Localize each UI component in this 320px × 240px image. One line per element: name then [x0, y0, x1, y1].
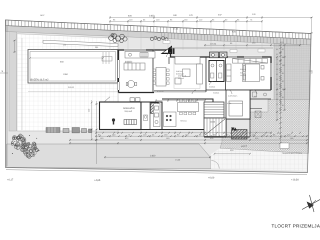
door arcs — [167, 53, 172, 58]
svg-text:(7,48): (7,48) — [175, 158, 181, 161]
svg-text:95: 95 — [282, 56, 284, 59]
svg-text:+0,17: +0,17 — [241, 145, 248, 148]
big dining table + 8 chairs — [178, 103, 199, 112]
svg-text:95: 95 — [282, 96, 284, 99]
svg-text:24,5 m2: 24,5 m2 — [125, 110, 133, 113]
chimney hatched block — [151, 103, 159, 114]
closet on west wall of bedroom — [227, 64, 232, 82]
svg-text:TRAVNATA BIOL.JEZGRA: TRAVNATA BIOL.JEZGRA — [282, 152, 303, 155]
svg-text:+0,17: +0,17 — [7, 179, 14, 182]
outer walls — [119, 50, 171, 93]
dimensions — [13, 16, 312, 164]
svg-text:BAZEN 46,5 m2: BAZEN 46,5 m2 — [31, 79, 50, 82]
pool — [28, 46, 118, 83]
planter above pool — [43, 40, 118, 46]
svg-text:SOBA 1: SOBA 1 — [240, 68, 246, 71]
fence band: white ladder strip — [6, 20, 312, 39]
svg-text:90: 90 — [276, 48, 278, 51]
summer kitchen west counter — [154, 104, 161, 127]
fence band: gray apron below fence — [6, 26, 312, 45]
svg-text:35: 35 — [276, 53, 278, 56]
svg-text:60: 60 — [282, 48, 284, 51]
svg-text:85: 85 — [276, 73, 278, 76]
summer kitchen room walls — [162, 99, 213, 130]
svg-text:30: 30 — [276, 78, 278, 81]
terrace tiled area around pool — [17, 34, 118, 131]
sun loungers row on terrace edge — [46, 128, 92, 133]
dining table + chairs — [156, 68, 166, 87]
svg-text:70: 70 — [276, 58, 278, 61]
svg-text:95: 95 — [282, 72, 284, 75]
summer kitchen island — [164, 112, 177, 127]
svg-text:17,10: 17,10 — [173, 28, 179, 31]
BBQ counter on north terrace — [210, 52, 228, 58]
interior partitions — [152, 50, 154, 93]
bushes near house NW corner — [109, 34, 128, 43]
fence ladder ticks — [9, 20, 309, 39]
svg-text:1060: 1060 — [63, 73, 69, 76]
west path strip — [9, 30, 17, 132]
svg-text:±0,00: ±0,00 — [210, 121, 216, 124]
svg-text:14,2 m2: 14,2 m2 — [240, 74, 246, 77]
windows: west wall — [117, 60, 119, 78]
bedroom wardrobe — [233, 59, 268, 64]
svg-text:45: 45 — [276, 93, 278, 96]
svg-text:203,04: 203,04 — [210, 42, 217, 45]
svg-text:85: 85 — [282, 104, 284, 107]
plant scribble near entry — [150, 37, 168, 41]
sofas — [175, 57, 200, 65]
kitchen island — [124, 63, 145, 70]
site parcel fill — [6, 20, 312, 173]
stairs lower flight — [204, 118, 226, 137]
SE guest room — [226, 90, 250, 119]
entry canopy dark triangle — [161, 46, 173, 55]
round table — [127, 80, 134, 87]
pool steps / ladder — [102, 52, 104, 64]
svg-text:32,6 m2: 32,6 m2 — [178, 77, 184, 80]
right garden (gridded gray) — [274, 43, 311, 100]
svg-text:120: 120 — [282, 88, 285, 91]
crosshatched garden (bottom right) — [220, 100, 310, 154]
svg-text:310 83: 310 83 — [68, 86, 74, 89]
svg-text:15: 15 — [276, 63, 278, 66]
svg-text:+4,65: +4,65 — [94, 179, 101, 182]
annex fixtures — [144, 115, 148, 121]
svg-text:150: 150 — [63, 44, 66, 47]
south glass wall of living area — [154, 90, 206, 92]
nightstands — [261, 66, 264, 70]
svg-text:KUHINJA: KUHINJA — [125, 60, 133, 63]
bed — [243, 64, 260, 82]
svg-text:1460: 1460 — [149, 14, 155, 17]
svg-text:220: 220 — [88, 109, 91, 112]
driveway (gray apron at bottom) — [7, 144, 212, 169]
svg-text:TLOCRT PRIZEMLJA: TLOCRT PRIZEMLJA — [272, 223, 320, 228]
stairs upper flight — [204, 102, 224, 118]
svg-text:50: 50 — [276, 68, 278, 71]
svg-text:65: 65 — [276, 83, 278, 86]
trees bottom left — [11, 134, 39, 158]
south wall left block — [119, 92, 155, 94]
entrance court (white, right of driveway) — [211, 148, 309, 171]
svg-text:TERASA: TERASA — [180, 120, 188, 123]
garage (storage) block — [100, 102, 142, 130]
furniture — [46, 52, 268, 133]
svg-text:SPREMIŠTE: SPREMIŠTE — [123, 107, 136, 110]
kitchen counter — [125, 52, 155, 59]
svg-text:25: 25 — [276, 103, 278, 106]
svg-text:10: 10 — [276, 88, 278, 91]
house floor (white) — [100, 50, 272, 137]
svg-text:80: 80 — [276, 98, 278, 101]
window: east wall — [270, 63, 272, 77]
svg-text:+10,30: +10,30 — [291, 178, 299, 181]
rug — [174, 59, 200, 89]
svg-text:+0,00: +0,00 — [208, 177, 215, 180]
svg-text:60: 60 — [282, 80, 284, 83]
house — [100, 37, 274, 140]
gate swing arc — [211, 161, 219, 169]
bathroom pod — [209, 61, 224, 82]
svg-text:120: 120 — [282, 64, 285, 67]
windows: top walls — [124, 49, 146, 51]
svg-text:205: 205 — [95, 46, 98, 49]
east bath room — [250, 98, 271, 100]
annex row right of garage — [141, 102, 162, 130]
site boundary double lines — [6, 20, 312, 173]
svg-text:1460: 1460 — [150, 154, 156, 157]
garage interior — [112, 118, 115, 121]
svg-text:610: 610 — [311, 70, 314, 73]
